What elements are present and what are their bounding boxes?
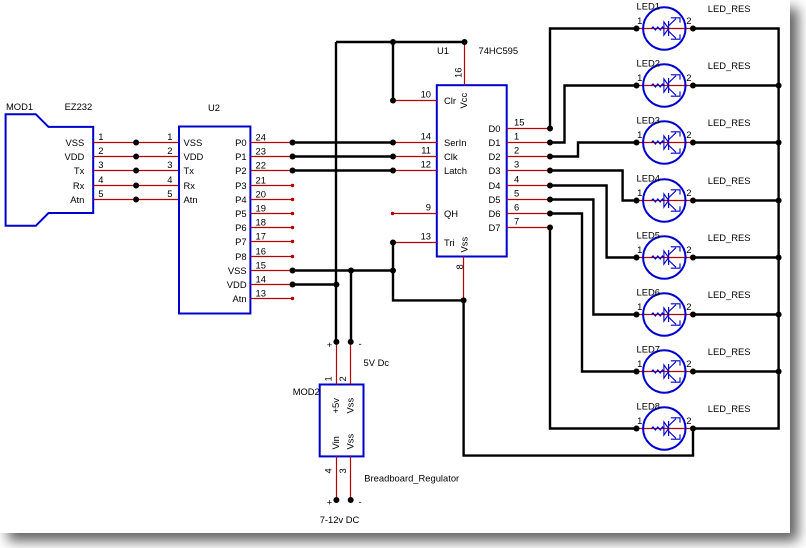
LED6 pin numbers 1 2 — [637, 301, 691, 312]
svg-text:22: 22 — [256, 160, 266, 171]
svg-text:P1: P1 — [235, 151, 246, 162]
svg-text:7: 7 — [514, 216, 519, 227]
MOD2 pin 2 stub — [350, 342, 352, 385]
wire D4 to LED5 — [550, 186, 637, 258]
svg-text:D5: D5 — [489, 194, 501, 205]
5V supply terminal dots — [333, 339, 339, 345]
svg-text:2: 2 — [686, 415, 691, 426]
svg-text:1: 1 — [98, 131, 103, 142]
svg-text:LED1: LED1 — [637, 1, 660, 12]
svg-text:Atn: Atn — [184, 194, 198, 205]
junction dot at D5 pin — [547, 197, 553, 203]
svg-text:Vss: Vss — [344, 398, 355, 414]
svg-text:2: 2 — [686, 129, 691, 140]
svg-text:9: 9 — [426, 202, 431, 213]
wire +5V vertical to regulator — [335, 42, 337, 342]
LED2-LED7 cathode wires to bus — [693, 86, 779, 372]
wire +5V to Clr — [392, 42, 394, 101]
svg-text:23: 23 — [256, 146, 266, 157]
wire ground net Tri to Vss8 to LED8 — [393, 243, 693, 456]
wire MOD1 VDD to U2 pin 2 — [93, 156, 179, 158]
svg-text:1: 1 — [637, 72, 642, 83]
U1 Vss pin 8 stub — [463, 257, 465, 301]
MOD2 pin 4 stub — [336, 456, 338, 500]
svg-text:LED3: LED3 — [637, 115, 660, 126]
svg-text:15: 15 — [514, 117, 524, 128]
svg-text:LED_RES: LED_RES — [708, 117, 751, 128]
junction dot at D0 pin — [547, 126, 553, 132]
svg-text:19: 19 — [256, 203, 266, 214]
junction dot at D1 pin — [547, 140, 553, 146]
wire D7 to LED8 — [550, 228, 637, 429]
svg-text:24: 24 — [256, 132, 266, 143]
svg-text:VSS: VSS — [66, 137, 85, 148]
IC U1 74HC595 outline — [437, 85, 507, 256]
svg-text:14: 14 — [421, 131, 431, 142]
U1 left pin stubs Clr SerIn Clk Latch Tri — [393, 101, 437, 243]
svg-text:P5: P5 — [235, 208, 246, 219]
svg-text:VDD: VDD — [65, 151, 85, 162]
wire P2-Latch — [293, 169, 394, 171]
svg-text:5V Dc: 5V Dc — [364, 357, 390, 368]
IC U2 outline — [179, 127, 250, 314]
svg-text:12: 12 — [421, 159, 431, 170]
U2 right pin names P0-P8 VSS VDD Atn — [227, 137, 247, 304]
svg-text:P0: P0 — [235, 137, 246, 148]
svg-text:P4: P4 — [235, 194, 246, 205]
svg-text:20: 20 — [256, 189, 266, 200]
junction dots on top rail — [390, 39, 396, 45]
wire U2 VDD row — [293, 283, 337, 285]
svg-text:Vcc: Vcc — [458, 93, 469, 109]
svg-text:LED_RES: LED_RES — [708, 175, 751, 186]
svg-text:2: 2 — [686, 187, 691, 198]
MOD1 pin names VSS VDD Tx Rx Atn — [65, 137, 85, 205]
LED7 pin dots — [634, 369, 640, 375]
junction dots on cathode bus — [776, 83, 782, 375]
wire MOD1 VSS to U2 pin 1 — [93, 142, 179, 144]
svg-text:1: 1 — [637, 129, 642, 140]
junction dots on P1-Clk wire — [290, 154, 296, 160]
LED4 with series resistor (LED_RES) — [637, 179, 694, 221]
svg-text:VDD: VDD — [184, 151, 204, 162]
svg-text:P8: P8 — [235, 251, 246, 262]
svg-text:16: 16 — [453, 68, 464, 78]
U1 Vcc pin 16 stub — [464, 42, 466, 85]
svg-text:Tx: Tx — [74, 165, 85, 176]
pin numbers 1-5 at MOD1 side — [98, 131, 103, 199]
wire LED cathode bus — [693, 29, 779, 429]
svg-text:-: - — [358, 338, 361, 349]
wire D3 to LED4 — [550, 171, 637, 201]
junction dot at Clr pin — [390, 98, 396, 104]
junction dots on P0-SerIn wire — [290, 140, 296, 146]
connector MOD1 EZ232 outline — [6, 114, 94, 226]
svg-text:D4: D4 — [489, 180, 501, 191]
svg-text:Vss: Vss — [344, 434, 355, 450]
LED5 pin dots — [634, 255, 640, 261]
svg-text:Atn: Atn — [233, 293, 247, 304]
svg-text:LED7: LED7 — [637, 344, 660, 355]
wire D2 to LED3 — [550, 143, 637, 157]
LED6 with series resistor (LED_RES) — [637, 293, 694, 335]
svg-text:LED_RES: LED_RES — [708, 346, 751, 357]
svg-text:D0: D0 — [489, 123, 501, 134]
svg-text:2: 2 — [686, 244, 691, 255]
junction dots on VDD row — [290, 282, 296, 288]
svg-text:10: 10 — [421, 89, 431, 100]
LED5 with series resistor (LED_RES) — [637, 236, 694, 278]
svg-text:LED8: LED8 — [637, 401, 660, 412]
svg-text:VDD: VDD — [227, 279, 247, 290]
svg-text:5: 5 — [167, 188, 172, 199]
svg-text:6: 6 — [514, 202, 519, 213]
wire MOD1 Atn to U2 pin 5 — [93, 199, 179, 201]
wire +5V top rail — [336, 41, 465, 43]
svg-text:2: 2 — [686, 72, 691, 83]
svg-text:1: 1 — [637, 244, 642, 255]
svg-text:MOD1: MOD1 — [6, 101, 33, 112]
svg-text:LED_RES: LED_RES — [708, 403, 751, 414]
LED1 with series resistor (LED_RES) — [637, 7, 694, 49]
svg-text:5: 5 — [98, 188, 103, 199]
svg-text:4: 4 — [98, 174, 103, 185]
svg-text:SerIn: SerIn — [444, 137, 466, 148]
svg-text:5: 5 — [514, 188, 519, 199]
svg-text:Tri: Tri — [444, 237, 455, 248]
wire D0 to LED1 — [550, 29, 637, 129]
junction on VDD wire — [133, 154, 139, 160]
svg-text:1: 1 — [637, 358, 642, 369]
svg-text:Clr: Clr — [444, 95, 456, 106]
svg-text:13: 13 — [256, 288, 266, 299]
junction dot at D7 pin — [547, 225, 553, 231]
LED8 pin dots — [634, 426, 640, 432]
U2 right pin stubs — [250, 143, 292, 299]
svg-text:Rx: Rx — [184, 180, 196, 191]
junction on Atn wire — [133, 197, 139, 203]
svg-text:21: 21 — [256, 175, 266, 186]
U1 right pin numbers 15 1 2 3 4 5 6 7 — [514, 117, 524, 227]
svg-text:4: 4 — [167, 174, 172, 185]
svg-text:3: 3 — [337, 468, 348, 473]
unconnected pin end dots P3-P8 and Atn — [291, 184, 294, 300]
svg-text:D3: D3 — [489, 165, 501, 176]
svg-text:LED5: LED5 — [637, 230, 660, 241]
U1 right pin names D0-D7 — [489, 123, 501, 233]
svg-text:2: 2 — [514, 145, 519, 156]
svg-text:7-12v DC: 7-12v DC — [320, 514, 360, 525]
svg-text:Clk: Clk — [444, 151, 458, 162]
svg-text:P7: P7 — [235, 236, 246, 247]
svg-text:VSS: VSS — [228, 265, 247, 276]
svg-text:4: 4 — [514, 174, 519, 185]
svg-text:1: 1 — [637, 15, 642, 26]
svg-text:LED_RES: LED_RES — [708, 289, 751, 300]
svg-text:Atn: Atn — [70, 194, 84, 205]
junction dot at D4 pin — [547, 183, 553, 189]
LED1 pin dots — [634, 26, 640, 32]
svg-text:Tx: Tx — [184, 165, 195, 176]
svg-text:16: 16 — [256, 246, 266, 257]
svg-text:4: 4 — [323, 468, 334, 473]
svg-text:2: 2 — [686, 15, 691, 26]
svg-text:2: 2 — [686, 358, 691, 369]
U1 QH pin stub unconnected — [393, 213, 437, 215]
svg-text:LED4: LED4 — [637, 173, 660, 184]
svg-text:74HC595: 74HC595 — [479, 45, 519, 56]
wire MOD1 Tx to U2 pin 3 — [93, 170, 179, 172]
svg-text:1: 1 — [637, 301, 642, 312]
LED4 pin numbers 1 2 — [637, 187, 691, 198]
svg-text:3: 3 — [514, 159, 519, 170]
svg-text:3: 3 — [98, 159, 103, 170]
svg-text:1: 1 — [323, 376, 334, 381]
svg-text:P3: P3 — [235, 180, 246, 191]
svg-text:1: 1 — [637, 415, 642, 426]
svg-text:+: + — [327, 497, 333, 508]
svg-text:13: 13 — [421, 231, 431, 242]
svg-text:2: 2 — [98, 145, 103, 156]
svg-text:+: + — [327, 339, 333, 350]
svg-text:18: 18 — [256, 217, 266, 228]
LED3 pin dots — [634, 140, 640, 146]
junction dot at D6 pin — [547, 211, 553, 217]
svg-text:17: 17 — [256, 231, 266, 242]
junction dot at D2 pin — [547, 154, 553, 160]
U2 left pin names — [184, 137, 204, 205]
LED3 pin numbers 1 2 — [637, 129, 691, 140]
LED8 with series resistor (LED_RES) — [637, 407, 694, 449]
svg-text:LED_RES: LED_RES — [708, 3, 751, 14]
svg-text:Breadboard_Regulator: Breadboard_Regulator — [364, 473, 459, 484]
junction dots on VSS row — [290, 268, 296, 274]
wire P0-SerIn — [293, 141, 394, 143]
svg-text:15: 15 — [256, 260, 266, 271]
junction dots on P2-Latch wire — [290, 168, 296, 174]
LED1 pin numbers 1 2 — [637, 15, 691, 26]
svg-text:2: 2 — [686, 301, 691, 312]
svg-text:1: 1 — [514, 131, 519, 142]
svg-text:D7: D7 — [489, 222, 501, 233]
LED4 pin dots — [634, 198, 640, 204]
LED3 with series resistor (LED_RES) — [637, 121, 694, 163]
svg-text:P2: P2 — [235, 165, 246, 176]
U2 right pin numbers 24-13 — [256, 132, 266, 299]
svg-text:1: 1 — [167, 131, 172, 142]
svg-text:2: 2 — [337, 376, 348, 381]
svg-text:LED_RES: LED_RES — [708, 60, 751, 71]
LED6 pin dots — [634, 312, 640, 318]
svg-text:+5v: +5v — [330, 398, 341, 414]
LED7 pin numbers 1 2 — [637, 358, 691, 369]
U1 D0-D7 pin stubs — [507, 129, 550, 228]
junction on VSS wire — [133, 140, 139, 146]
svg-text:Latch: Latch — [444, 165, 467, 176]
svg-text:2: 2 — [167, 145, 172, 156]
svg-text:3: 3 — [167, 159, 172, 170]
LED8 pin numbers 1 2 — [637, 415, 691, 426]
LED7 with series resistor (LED_RES) — [637, 350, 694, 392]
junction dot at Tri pin — [390, 240, 396, 246]
wire D1 to LED2 — [550, 86, 637, 143]
svg-text:QH: QH — [444, 208, 458, 219]
junction on Tx wire — [133, 168, 139, 174]
svg-text:11: 11 — [421, 145, 431, 156]
wire P1-Clk — [293, 155, 394, 157]
junction dot at Vss pin 8 — [461, 297, 467, 303]
LED2 with series resistor (LED_RES) — [637, 64, 694, 106]
wire D5 to LED6 — [550, 200, 637, 315]
LED2 pin numbers 1 2 — [637, 72, 691, 83]
svg-text:-: - — [358, 496, 361, 507]
junction dot at D3 pin — [547, 168, 553, 174]
svg-text:U1: U1 — [437, 45, 449, 56]
svg-text:Vin: Vin — [330, 436, 341, 449]
module MOD2 Breadboard_Regulator outline — [320, 385, 364, 457]
svg-text:1: 1 — [637, 187, 642, 198]
svg-text:Rx: Rx — [73, 180, 85, 191]
svg-text:U2: U2 — [208, 102, 220, 113]
svg-text:LED2: LED2 — [637, 58, 660, 69]
svg-text:VSS: VSS — [184, 137, 203, 148]
svg-text:MOD2: MOD2 — [293, 386, 320, 397]
svg-text:D2: D2 — [489, 151, 501, 162]
MOD2 pin 1 stub — [336, 342, 338, 385]
svg-text:P6: P6 — [235, 222, 246, 233]
svg-text:D6: D6 — [489, 208, 501, 219]
wire D6 to LED7 — [550, 214, 637, 372]
MOD2 pin 3 stub — [350, 456, 352, 500]
svg-text:LED_RES: LED_RES — [708, 232, 751, 243]
wire MOD1 Rx to U2 pin 4 — [93, 185, 179, 187]
svg-text:14: 14 — [256, 274, 266, 285]
junction on Rx wire — [133, 183, 139, 189]
wire U2 VSS row — [293, 269, 394, 271]
svg-text:LED6: LED6 — [637, 287, 660, 298]
wire VSS vertical to regulator — [350, 271, 352, 342]
LED2 pin dots — [634, 83, 640, 89]
LED5 pin numbers 1 2 — [637, 244, 691, 255]
svg-text:Vss: Vss — [459, 237, 470, 253]
7-12v supply terminal dots — [333, 497, 339, 503]
svg-text:EZ232: EZ232 — [65, 101, 93, 112]
pin numbers 1-5 at U2 side — [167, 131, 172, 199]
svg-text:D1: D1 — [489, 137, 501, 148]
